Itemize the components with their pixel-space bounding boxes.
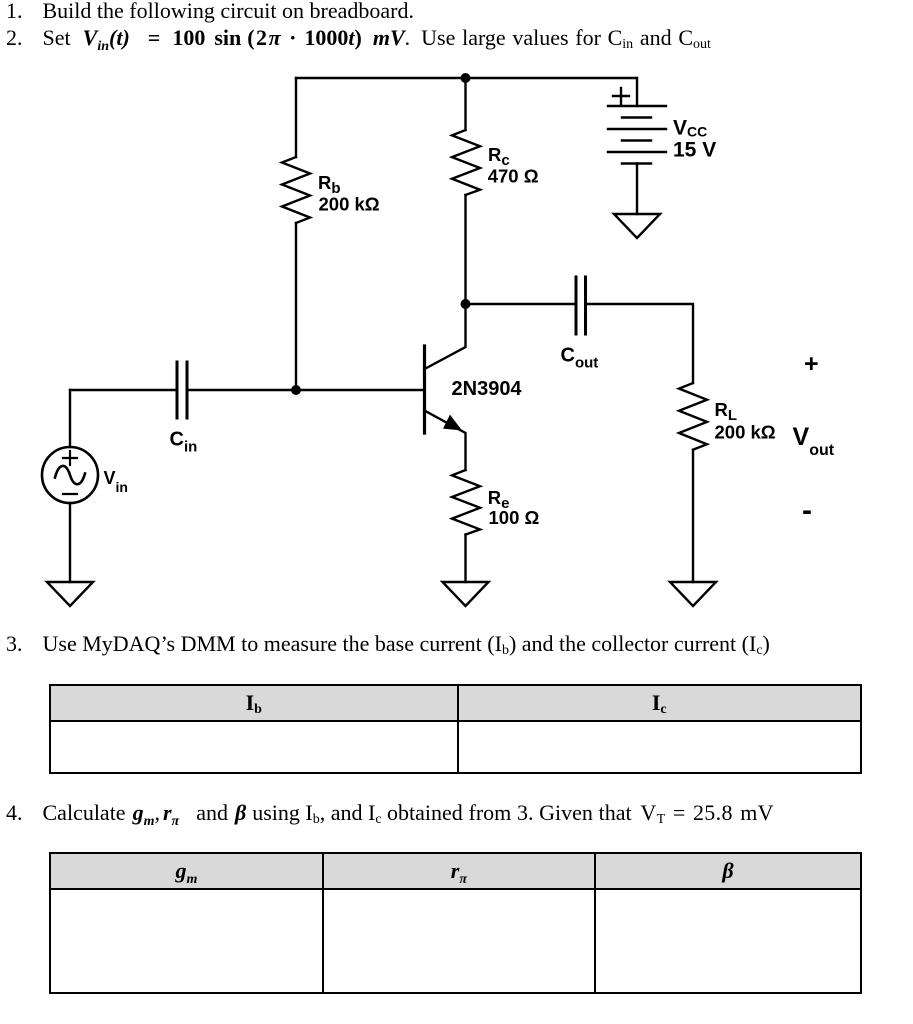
wire: collector node to Cout left plate	[466, 303, 575, 305]
source Vin circle	[42, 447, 98, 503]
svg-text:Vout: Vout	[793, 423, 835, 459]
node: base junction at Rb bottom	[291, 385, 301, 395]
svg-text:Vin: Vin	[104, 468, 128, 495]
transistor Q1 2N3904 base bar	[423, 346, 426, 433]
svg-text:+: +	[804, 350, 819, 378]
svg-text:-: -	[802, 494, 812, 527]
item 3 text	[6, 631, 770, 657]
wire: Cin right plate to base	[187, 389, 424, 391]
resistor RL	[679, 383, 707, 450]
wire: Rb bottom to base node	[295, 223, 297, 390]
wire: Rb top segment	[295, 78, 297, 157]
table: Ib / Ic measurements	[49, 684, 862, 774]
resistor Re	[452, 470, 480, 535]
wire: Vcc branch from top rail down	[636, 78, 638, 106]
wire: Re bottom to ground	[464, 535, 466, 582]
ground under RL	[670, 582, 716, 606]
node: top rail / collector branch junction	[461, 73, 471, 83]
battery Vcc plates	[608, 105, 666, 107]
ground under Vcc battery	[614, 214, 660, 238]
wire: Cout right plate to RL branch	[587, 304, 693, 383]
wire: RL bottom to ground	[692, 450, 694, 582]
wire: base wire from Vin node to base	[70, 389, 177, 391]
svg-text:VCC: VCC	[673, 117, 707, 140]
ground under Vin	[47, 582, 93, 606]
svg-text:Cin: Cin	[170, 429, 198, 456]
source Vin minus sign	[63, 493, 77, 495]
svg-text:15 V: 15 V	[673, 139, 716, 162]
source Vin plus sign	[63, 451, 77, 465]
transistor Q1 emitter arrow	[443, 415, 462, 431]
table: gm / rpi / beta calculations	[49, 852, 862, 994]
wire: Vin top to base wire	[69, 390, 71, 447]
svg-text:RL: RL	[715, 399, 738, 424]
svg-text:200 kΩ: 200 kΩ	[715, 421, 776, 442]
capacitor Cout	[576, 277, 586, 334]
wire: Vin bottom to ground	[69, 503, 71, 582]
wire: battery minus to ground	[636, 164, 638, 215]
svg-text:2N3904: 2N3904	[452, 378, 523, 400]
transistor Q1 emitter lead	[425, 411, 466, 471]
wire: Rc bottom to collector node	[464, 195, 466, 304]
battery plus sign	[613, 88, 629, 104]
capacitor Cin	[177, 362, 187, 418]
svg-text:200 kΩ: 200 kΩ	[319, 193, 380, 214]
wire: top rail from Rb top to Vcc branch	[296, 77, 637, 79]
transistor Q1 collector lead	[425, 304, 466, 369]
item 1 text	[6, 0, 414, 24]
svg-text:Cout: Cout	[561, 345, 599, 372]
node: collector output junction	[461, 299, 471, 309]
wire: Rc top segment	[464, 78, 466, 130]
item 2 text	[6, 25, 711, 51]
source Vin sine wave	[55, 466, 85, 484]
circuit schematic SVG	[0, 0, 913, 660]
resistor Rc	[452, 130, 480, 195]
svg-text:100 Ω: 100 Ω	[489, 507, 540, 528]
ground under Re	[443, 582, 489, 606]
resistor Rb	[282, 157, 310, 223]
svg-text:470 Ω: 470 Ω	[488, 165, 539, 186]
item 4 text	[6, 800, 774, 826]
